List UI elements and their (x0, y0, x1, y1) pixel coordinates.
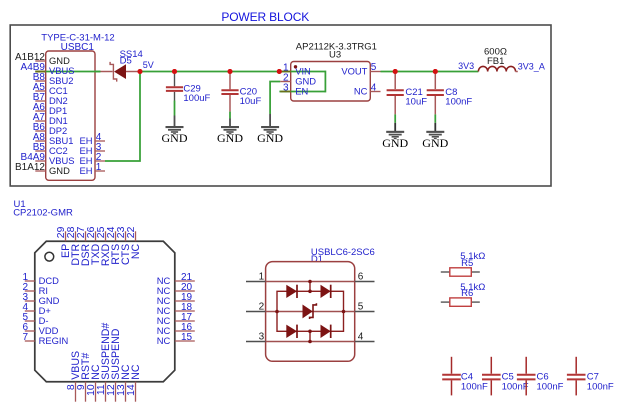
svg-text:22: 22 (126, 226, 137, 238)
svg-text:7: 7 (22, 332, 28, 343)
svg-text:GND: GND (257, 131, 283, 145)
svg-text:NC: NC (354, 86, 368, 97)
svg-text:100nF: 100nF (502, 381, 529, 392)
svg-text:100nF: 100nF (445, 97, 472, 108)
svg-text:NC: NC (130, 364, 142, 380)
svg-text:15: 15 (181, 332, 193, 343)
svg-text:3: 3 (283, 83, 289, 94)
svg-text:GND: GND (217, 131, 243, 145)
svg-text:1: 1 (96, 162, 102, 173)
svg-text:14: 14 (126, 384, 137, 396)
svg-text:VOUT: VOUT (341, 66, 367, 77)
svg-text:100nF: 100nF (537, 381, 564, 392)
svg-text:R5: R5 (461, 258, 473, 269)
svg-text:GND: GND (49, 165, 70, 176)
svg-text:GND: GND (382, 136, 408, 150)
svg-text:10uF: 10uF (240, 96, 262, 107)
svg-text:1: 1 (259, 272, 265, 283)
svg-text:R6: R6 (461, 288, 473, 299)
svg-text:POWER BLOCK: POWER BLOCK (221, 10, 309, 24)
svg-text:2: 2 (259, 302, 265, 313)
svg-text:100nF: 100nF (587, 381, 614, 392)
svg-text:4: 4 (371, 82, 377, 93)
svg-text:GND: GND (422, 136, 448, 150)
svg-text:10uF: 10uF (405, 97, 427, 108)
svg-text:EH: EH (79, 165, 92, 176)
svg-text:4: 4 (358, 332, 364, 343)
svg-text:5: 5 (371, 62, 377, 73)
svg-text:USBC1: USBC1 (61, 42, 95, 53)
svg-text:5: 5 (358, 302, 364, 313)
svg-text:FB1: FB1 (487, 56, 504, 67)
svg-text:3V3: 3V3 (458, 61, 474, 71)
svg-text:3V3_A: 3V3_A (518, 62, 545, 72)
svg-text:6: 6 (358, 272, 364, 283)
svg-text:100nF: 100nF (461, 381, 488, 392)
svg-text:3: 3 (259, 332, 265, 343)
svg-text:GND: GND (162, 131, 188, 145)
svg-text:5V: 5V (143, 60, 154, 70)
svg-text:NC: NC (130, 243, 142, 259)
svg-text:EN: EN (295, 86, 308, 97)
svg-text:REGIN: REGIN (39, 335, 69, 346)
svg-text:100uF: 100uF (183, 93, 210, 104)
svg-text:U3: U3 (329, 50, 341, 61)
svg-text:D5: D5 (120, 56, 132, 67)
svg-text:B1A12: B1A12 (15, 162, 45, 173)
svg-text:CP2102-GMR: CP2102-GMR (13, 208, 73, 219)
svg-text:NC: NC (157, 335, 171, 346)
